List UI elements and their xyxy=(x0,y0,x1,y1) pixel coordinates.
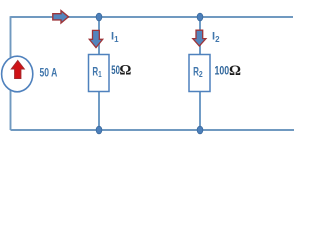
current direction block arrow (top, right) xyxy=(53,11,69,23)
node dot bottom of R1 branch xyxy=(96,126,102,134)
svg-text:I2: I2 xyxy=(212,31,220,45)
current source arrow (red, up) xyxy=(11,61,24,79)
svg-text:1: 1 xyxy=(98,70,102,79)
node dot bottom of R2 branch xyxy=(197,126,203,134)
current source I=50A (circle) xyxy=(2,56,33,92)
current I1 block arrow (down) xyxy=(89,30,102,47)
wire bottom horizontal xyxy=(11,129,295,131)
svg-text:100: 100 xyxy=(215,64,230,78)
svg-text:2: 2 xyxy=(199,70,203,79)
svg-text:Ω: Ω xyxy=(119,63,131,79)
wire R1 branch vertical xyxy=(98,17,100,130)
resistor R1 (box) xyxy=(89,55,110,92)
resistor R2 (box) xyxy=(189,55,210,92)
wire left vertical xyxy=(10,16,12,130)
wire R2 branch vertical xyxy=(199,17,201,130)
node dot top of R1 branch xyxy=(96,13,102,21)
svg-text:50 A: 50 A xyxy=(40,66,58,80)
svg-text:I1: I1 xyxy=(111,31,119,45)
wire top horizontal xyxy=(11,16,294,18)
current I2 block arrow (down) xyxy=(193,30,206,46)
node dot top of R2 branch xyxy=(197,13,203,21)
svg-text:Ω: Ω xyxy=(229,63,241,79)
